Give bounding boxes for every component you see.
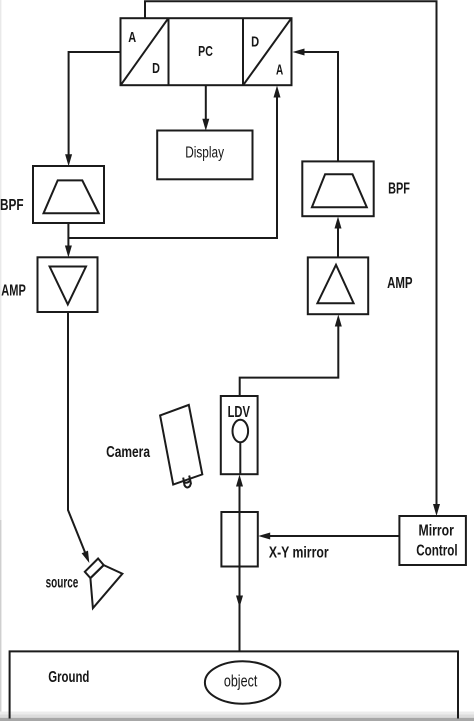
svg-text:object: object: [224, 673, 258, 691]
wire beam X-Y mirror to object: [236, 567, 243, 652]
wire left BPF to left AMP: [65, 224, 72, 258]
mirror control box: [399, 516, 466, 565]
svg-text:Camera: Camera: [106, 444, 150, 461]
label A (A/D top): [128, 29, 136, 46]
bottom page-edge grey bar: [0, 712, 474, 721]
wire branch to A/D (right section) input: [68, 86, 280, 239]
left page-edge grey strip: [0, 0, 1, 721]
wire right AMP to right BPF: [335, 217, 342, 258]
svg-text:Ground: Ground: [48, 669, 89, 686]
wire D/A-out to left BPF: [65, 52, 120, 166]
label D (A/D bottom): [152, 60, 160, 77]
wire beam through X-Y mirror: [239, 512, 241, 567]
wire LDV to right AMP: [240, 315, 342, 397]
svg-text:D: D: [152, 60, 160, 77]
X-Y mirror box: [221, 512, 257, 567]
camera body: [160, 405, 202, 485]
svg-text:A: A: [128, 29, 136, 46]
label A (D/A bottom): [276, 61, 283, 78]
label BPF (left): [0, 197, 24, 214]
svg-text:X-Y mirror: X-Y mirror: [269, 544, 329, 561]
label X-Y mirror: [269, 544, 329, 561]
svg-text:LDV: LDV: [228, 404, 251, 421]
right AMP box A2: [308, 257, 368, 314]
label AMP (right): [387, 275, 413, 292]
svg-text:D: D: [251, 33, 259, 50]
svg-text:Control: Control: [416, 543, 457, 560]
wire X-Y mirror beam up to LDV: [236, 475, 243, 513]
label AMP (left): [1, 283, 26, 300]
label Camera: [106, 444, 150, 461]
wire right BPF to A/D (right section): [293, 49, 339, 162]
label BPF (right): [388, 181, 410, 198]
svg-text:AMP: AMP: [1, 283, 26, 300]
LDV box: [221, 396, 258, 474]
svg-text:BPF: BPF: [388, 181, 410, 198]
label PC: [198, 43, 213, 60]
object ellipse: [205, 661, 280, 703]
right BPF box F2: [302, 161, 373, 216]
wire PC to mirror control (top rail): [145, 1, 440, 516]
ground box: [10, 651, 458, 718]
svg-text:PC: PC: [198, 43, 213, 60]
left AMP box A1: [38, 257, 98, 312]
label D (D/A top): [251, 33, 259, 50]
svg-text:AMP: AMP: [387, 275, 413, 292]
left BPF box F1: [33, 166, 104, 223]
svg-text:A: A: [276, 61, 283, 78]
svg-text:Display: Display: [185, 145, 224, 162]
label source: [46, 575, 79, 592]
wire mirror control to X-Y mirror: [258, 533, 399, 540]
display box: [157, 131, 252, 180]
svg-text:source: source: [46, 575, 79, 592]
source speaker: [85, 559, 123, 609]
camera lens: [183, 476, 191, 488]
converter block U1 (A/D - PC - D/A): [121, 18, 292, 85]
wire left AMP to source: [68, 313, 89, 564]
svg-text:Mirror: Mirror: [419, 522, 454, 539]
wire PC to display: [202, 86, 209, 131]
svg-text:BPF: BPF: [0, 197, 24, 214]
